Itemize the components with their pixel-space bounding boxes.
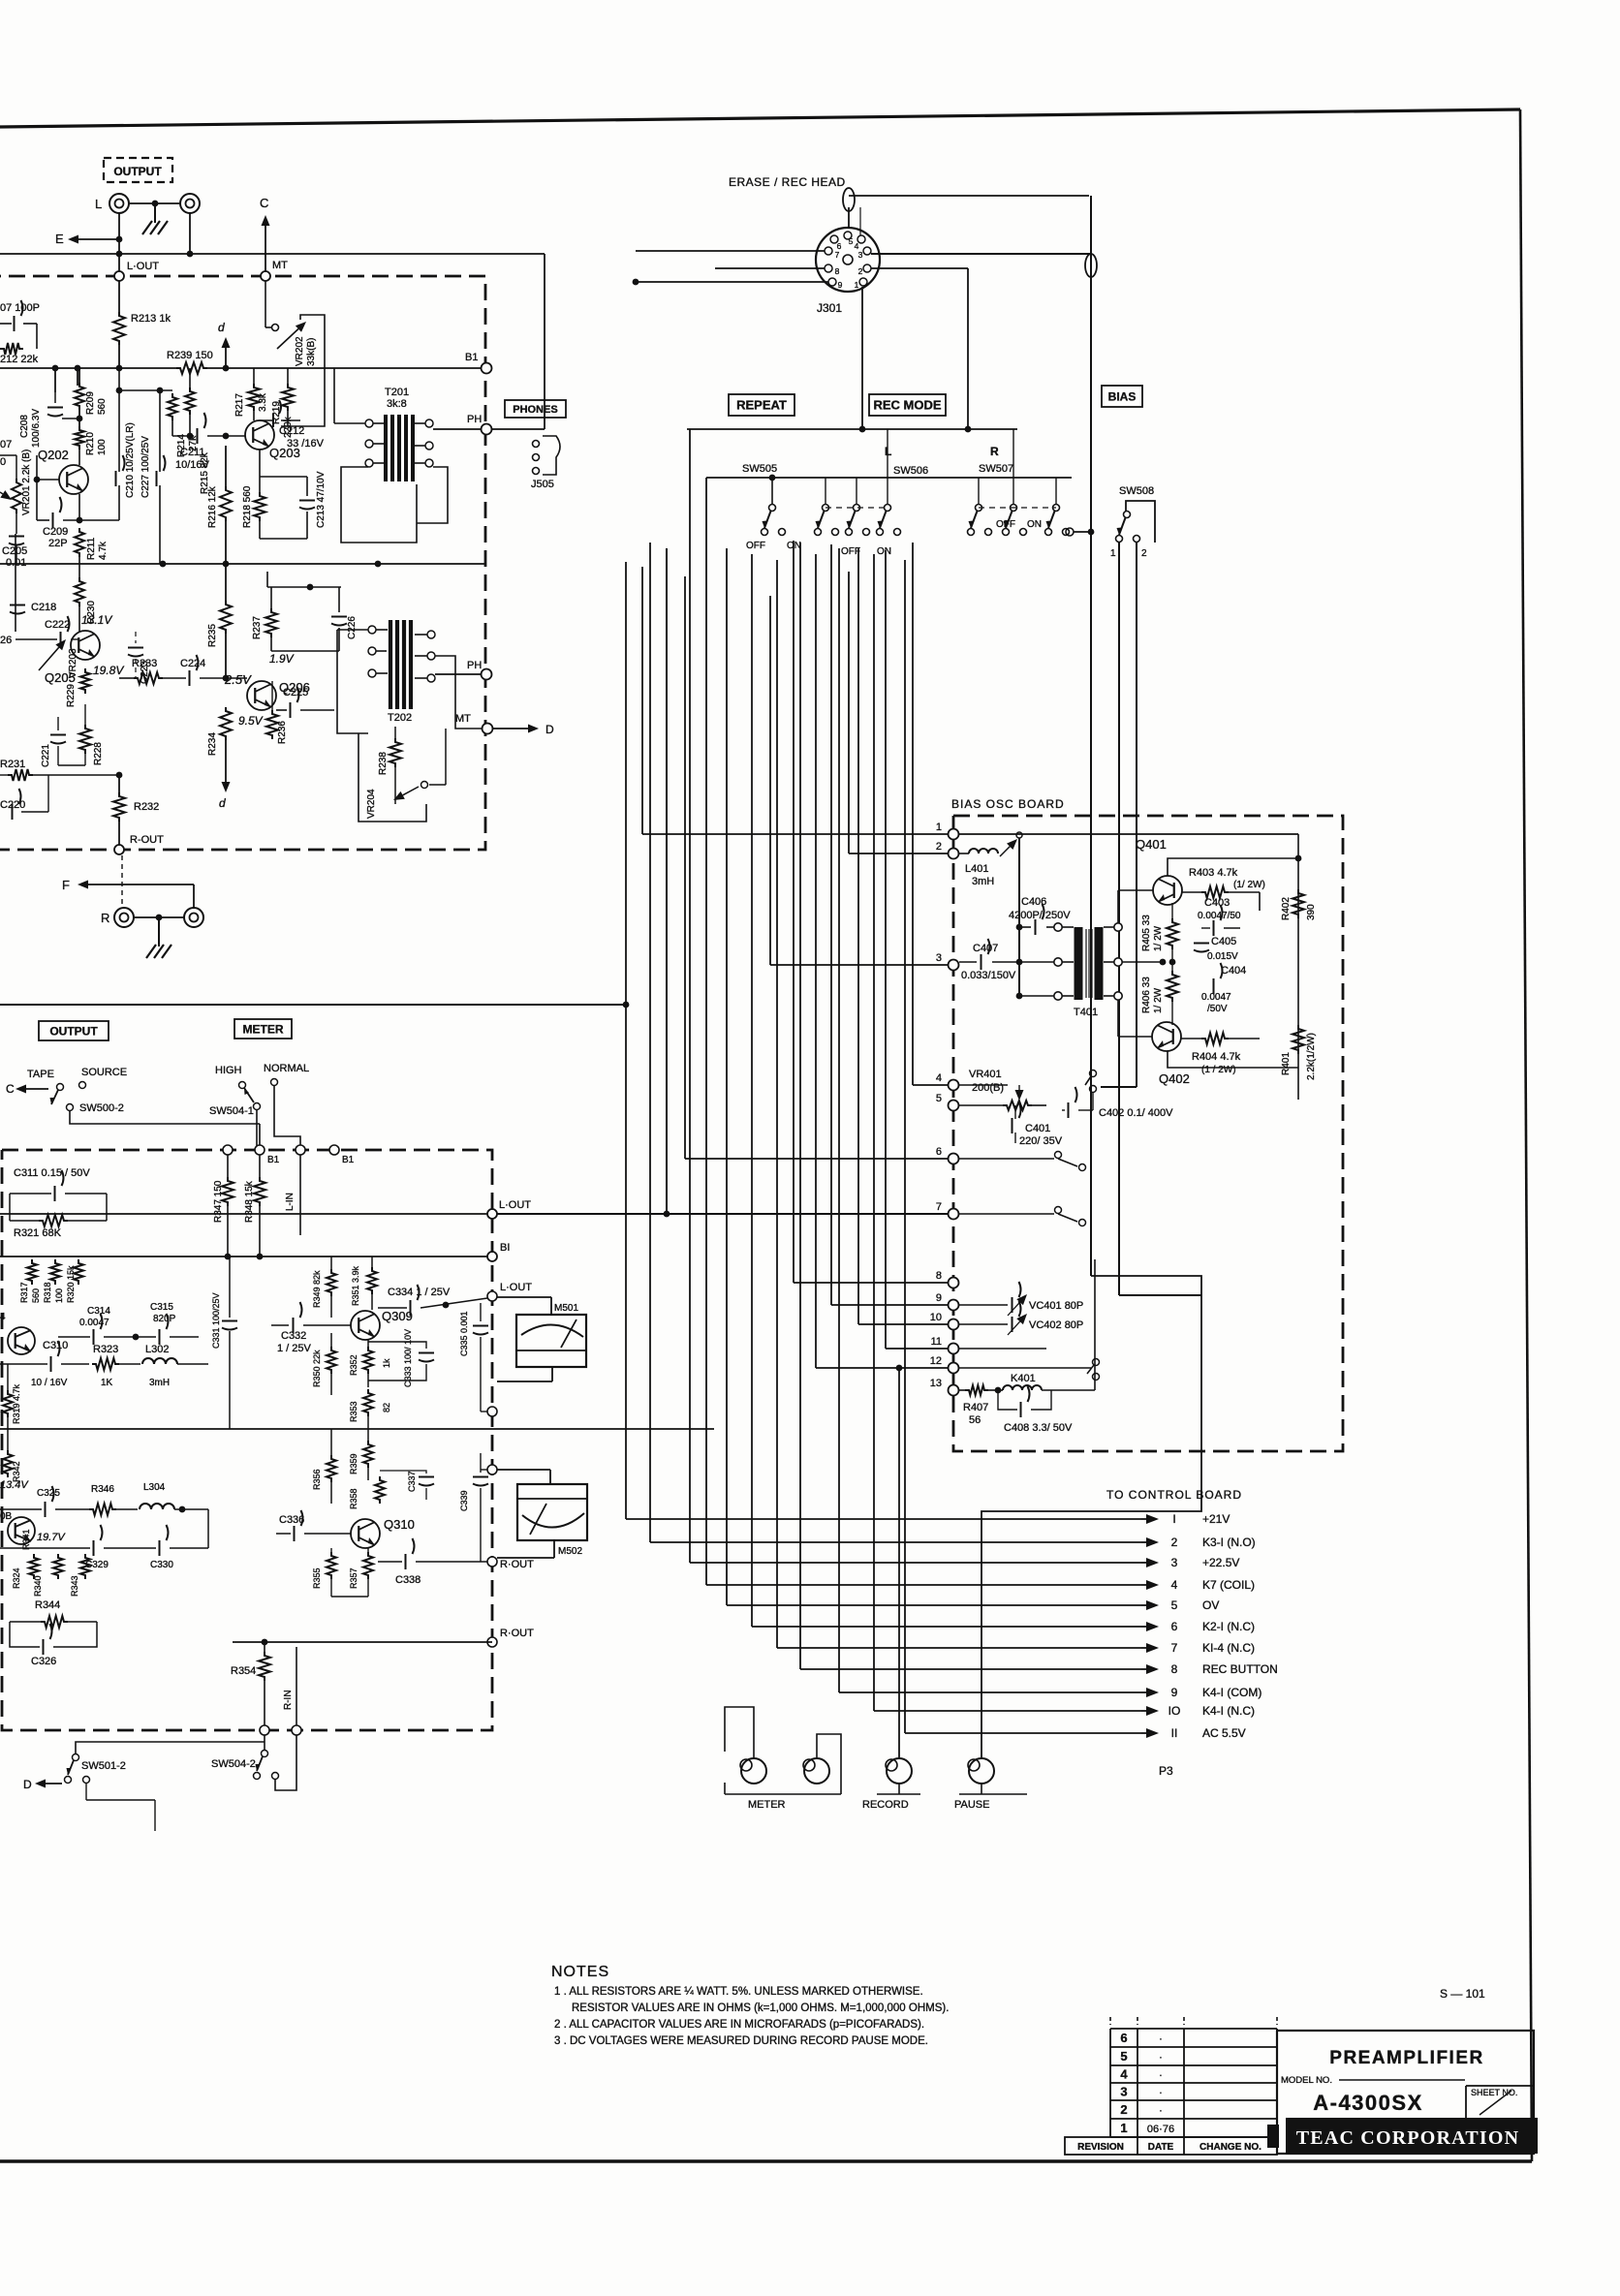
- node PH: [482, 424, 492, 435]
- svg-text:R231: R231: [0, 759, 25, 770]
- label BIAS: [1102, 386, 1142, 407]
- wire bundle to control row 10: [873, 554, 875, 1711]
- svg-text:7: 7: [835, 250, 840, 260]
- label OUTPUT (top): [104, 158, 172, 182]
- shield oval 2: [1085, 254, 1097, 277]
- svg-text:R237: R237: [252, 616, 263, 639]
- svg-text:RESISTOR VALUES ARE IN OHM: RESISTOR VALUES ARE IN OHMS (k=1,000 OHM…: [572, 2002, 949, 2014]
- svg-text:AC 5.5V: AC 5.5V: [1202, 1726, 1246, 1740]
- node D arrow right: [493, 728, 528, 729]
- svg-text:R210: R210: [85, 432, 96, 455]
- svg-text:R321 68K: R321 68K: [14, 1227, 62, 1239]
- svg-text:10: 10: [930, 1312, 942, 1323]
- svg-text:BI: BI: [500, 1242, 510, 1254]
- svg-text:R356: R356: [312, 1469, 322, 1490]
- wire J301 pin3 right: [871, 253, 1091, 255]
- svg-text:REC BUTTON: REC BUTTON: [1202, 1662, 1278, 1676]
- svg-text:13.4V: 13.4V: [0, 1479, 29, 1491]
- svg-text:VC402 80P: VC402 80P: [1029, 1319, 1083, 1331]
- svg-text:19.8V: 19.8V: [93, 664, 124, 677]
- svg-text:10/16V: 10/16V: [175, 459, 210, 471]
- svg-text:1 . ALL RESISTORS ARE ¼ W: 1 . ALL RESISTORS ARE ¼ WATT. 5%. UNLESS…: [554, 1986, 923, 1998]
- resistor R215: [189, 368, 191, 388]
- svg-text:C311 0.15 / 50V: C311 0.15 / 50V: [14, 1167, 90, 1179]
- svg-text:5: 5: [1171, 1598, 1178, 1612]
- svg-text:C315: C315: [150, 1302, 173, 1313]
- control board arrow 3: [1141, 1562, 1146, 1564]
- label REPEAT: [729, 394, 794, 416]
- svg-text:6: 6: [1171, 1620, 1178, 1633]
- bias board pin 3: [949, 960, 959, 971]
- wire bundle to bias pin: [815, 554, 817, 1368]
- svg-text:C407: C407: [973, 943, 998, 954]
- svg-text:9.5V: 9.5V: [238, 714, 264, 728]
- wire bus y443: [687, 428, 1017, 430]
- resistor R210: [75, 426, 84, 450]
- ground: [154, 203, 156, 223]
- svg-text:L304: L304: [143, 1482, 166, 1493]
- svg-text:22P: 22P: [48, 538, 68, 549]
- node d arrow up: [225, 348, 227, 368]
- sheet right border: [1520, 109, 1532, 2161]
- wire left stubs: [0, 1363, 35, 1365]
- svg-text:R353: R353: [349, 1401, 358, 1422]
- svg-text:·: ·: [1159, 2088, 1163, 2099]
- svg-text:P3: P3: [1159, 1764, 1173, 1778]
- svg-text:390: 390: [1306, 904, 1317, 920]
- svg-text:R401: R401: [1281, 1052, 1292, 1075]
- resistor R237 capacitor C226: [267, 586, 341, 588]
- svg-text:5: 5: [1120, 2049, 1127, 2063]
- svg-text:R355: R355: [312, 1567, 322, 1589]
- svg-text:OFF: OFF: [841, 546, 860, 557]
- svg-text:MT: MT: [272, 260, 288, 271]
- svg-text:M501: M501: [554, 1303, 578, 1314]
- playback board dashed outline: [0, 276, 485, 850]
- resistor R321: [39, 1215, 68, 1226]
- svg-text:9: 9: [936, 1292, 942, 1304]
- svg-text:2.2k(1/2W): 2.2k(1/2W): [1306, 1033, 1317, 1080]
- svg-text:R359: R359: [349, 1453, 358, 1474]
- svg-text:R·OUT: R·OUT: [500, 1628, 534, 1639]
- bias board pin 2: [949, 849, 959, 859]
- resistor R219: [282, 384, 294, 411]
- wire jack-R down: [189, 213, 191, 254]
- node d arrow down: [225, 765, 227, 782]
- wire rail y582: [0, 563, 485, 565]
- svg-text:1/ 2W: 1/ 2W: [1153, 987, 1164, 1013]
- svg-text:R217: R217: [234, 393, 245, 417]
- capacitor C205: [9, 537, 24, 545]
- transistor Q308 partial: [8, 1517, 35, 1544]
- svg-text:R358: R358: [349, 1488, 358, 1509]
- svg-text:TO CONTROL BOARD: TO CONTROL BOARD: [1106, 1488, 1242, 1502]
- transistor Q205: [71, 631, 100, 660]
- wire bundle to bias pin: [885, 550, 887, 1349]
- wire bundle to bias pin: [641, 567, 643, 834]
- wire bus y493: [706, 477, 1072, 479]
- svg-text:R219: R219: [271, 401, 282, 424]
- svg-text:C401: C401: [1025, 1123, 1050, 1134]
- transistor Q206: [247, 681, 276, 710]
- capacitor C208: [62, 418, 79, 419]
- svg-text:·: ·: [1159, 2070, 1163, 2082]
- svg-text:VC401 80P: VC401 80P: [1029, 1300, 1083, 1312]
- svg-text:C404: C404: [1221, 965, 1246, 977]
- control board arrow 1: [1141, 1518, 1146, 1520]
- resistor R348: [259, 1155, 261, 1177]
- svg-text:100: 100: [97, 439, 108, 455]
- wire relay link corners: [1118, 1073, 1120, 1295]
- svg-text:33k(B): 33k(B): [306, 338, 317, 366]
- svg-text:R350 22k: R350 22k: [312, 1350, 322, 1387]
- svg-text:R·OUT: R·OUT: [500, 1559, 534, 1570]
- svg-text:RECORD: RECORD: [862, 1799, 909, 1811]
- svg-text:5: 5: [849, 236, 854, 246]
- svg-text:R319 4.7k: R319 4.7k: [12, 1383, 21, 1424]
- svg-text:560: 560: [31, 1288, 41, 1303]
- svg-text:L-IN: L-IN: [285, 1193, 296, 1211]
- capacitor C402 switch: [1090, 1070, 1097, 1077]
- svg-text:L·OUT: L·OUT: [499, 1199, 531, 1211]
- wire bundle to control row 3: [689, 429, 691, 1563]
- svg-text:CHANGE NO.: CHANGE NO.: [1199, 2142, 1262, 2153]
- svg-text:0.0047/50: 0.0047/50: [1198, 911, 1241, 921]
- varicap VC402: [959, 1323, 1008, 1325]
- svg-text:ON: ON: [877, 546, 891, 557]
- wire R233 C224 line: [119, 677, 134, 679]
- jack L-left: [109, 194, 129, 213]
- resistor R212 partial: [0, 343, 23, 355]
- wire rail y1475: [0, 1428, 714, 1430]
- svg-text:REPEAT: REPEAT: [736, 398, 787, 413]
- capacitor C210: [118, 368, 120, 472]
- bias board pin 5: [949, 1101, 959, 1111]
- svg-text:1 / 25V: 1 / 25V: [277, 1343, 312, 1354]
- wire right rail x1340: [1297, 834, 1299, 1100]
- jack R-left: [114, 908, 134, 927]
- svg-text:220/ 35V: 220/ 35V: [1019, 1135, 1063, 1147]
- relay K401: [988, 1389, 1003, 1391]
- node R-IN circles: [260, 1725, 269, 1735]
- node B1: [482, 363, 492, 374]
- svg-text:C221: C221: [41, 744, 51, 767]
- svg-text:C225: C225: [283, 687, 308, 698]
- svg-text:0.033/150V: 0.033/150V: [961, 970, 1016, 981]
- svg-text:R403 4.7k: R403 4.7k: [1189, 867, 1238, 879]
- svg-text:1.9V: 1.9V: [269, 652, 295, 666]
- svg-text:L·OUT: L·OUT: [500, 1282, 532, 1293]
- svg-text:SW506: SW506: [893, 465, 928, 477]
- wire T201 to PH: [433, 428, 486, 430]
- svg-text:BIAS: BIAS: [1108, 389, 1137, 403]
- svg-text:J301: J301: [817, 301, 842, 315]
- svg-text:0B: 0B: [0, 1511, 13, 1522]
- resistor R404: [1181, 1038, 1201, 1039]
- wire right vertical x1126: [1090, 196, 1092, 1276]
- sheet no box: [1465, 2086, 1467, 2118]
- svg-text:R238: R238: [378, 752, 389, 775]
- svg-text:11: 11: [931, 1336, 942, 1348]
- svg-text:ON: ON: [1027, 519, 1042, 530]
- resistor R214: [168, 393, 177, 420]
- wire bundle to control row 11: [904, 560, 906, 1733]
- T201 frame: [341, 467, 417, 543]
- svg-text:R211: R211: [86, 537, 97, 560]
- svg-text:Q402: Q402: [1159, 1071, 1190, 1086]
- label REC MODE: [869, 394, 946, 416]
- svg-text:OFF: OFF: [746, 541, 765, 551]
- svg-text:L401: L401: [965, 863, 988, 875]
- lamp METER 1: [741, 1758, 766, 1784]
- svg-text:R216 12k: R216 12k: [207, 485, 218, 528]
- svg-text:OUTPUT: OUTPUT: [49, 1024, 98, 1038]
- svg-text:R317: R317: [19, 1282, 29, 1303]
- node E arrow: [78, 238, 119, 240]
- resistor R218 C213 box: [259, 450, 261, 492]
- resistor R216: [225, 446, 227, 486]
- svg-text:OV: OV: [1202, 1598, 1219, 1612]
- svg-text:KI-4 (N.C): KI-4 (N.C): [1202, 1641, 1255, 1655]
- svg-text:d: d: [219, 796, 226, 810]
- control board arrow 8: [1141, 1668, 1146, 1670]
- wire between R jacks: [134, 916, 184, 918]
- wire J301 pin2 right: [871, 267, 968, 269]
- svg-text:HIGH: HIGH: [215, 1065, 242, 1076]
- resistor R229: [80, 668, 90, 694]
- svg-text:MT: MT: [455, 713, 471, 725]
- lamp RECORD: [887, 1758, 912, 1784]
- svg-text:MODEL NO.: MODEL NO.: [1281, 2075, 1332, 2086]
- node BI: [487, 1252, 497, 1261]
- svg-text:C333 100/ 10V: C333 100/ 10V: [403, 1329, 413, 1387]
- svg-text:PH: PH: [467, 660, 482, 671]
- svg-text:C339: C339: [459, 1490, 469, 1511]
- svg-text:C338: C338: [395, 1574, 421, 1586]
- svg-text:DATE: DATE: [1148, 2142, 1174, 2153]
- svg-text:SW505: SW505: [742, 463, 777, 475]
- lamp wiring pause: [981, 1276, 1201, 1758]
- node F arrow: [88, 884, 194, 885]
- svg-text:560: 560: [97, 398, 108, 415]
- transformer T401: [1075, 927, 1083, 1000]
- svg-text:2: 2: [1171, 1536, 1178, 1549]
- svg-text:R213 1k: R213 1k: [131, 313, 171, 325]
- wire v57: [54, 368, 56, 392]
- svg-text:M502: M502: [558, 1546, 582, 1557]
- transistor Q203: [245, 420, 274, 450]
- resistor R217: [248, 384, 260, 411]
- bias board pin 8: [949, 1278, 959, 1288]
- svg-text:R407: R407: [963, 1402, 988, 1413]
- wire y403: [119, 389, 172, 391]
- svg-text:212 22k: 212 22k: [0, 354, 39, 365]
- wire sw501 down: [85, 1784, 87, 1800]
- control board arrow 6: [1141, 1626, 1146, 1628]
- svg-text:K7 (COIL): K7 (COIL): [1202, 1578, 1255, 1592]
- svg-text:T202: T202: [388, 712, 412, 724]
- svg-text:C213 47/10V: C213 47/10V: [316, 471, 327, 528]
- transistor Q202: [59, 465, 88, 494]
- capacitor C326: [44, 1624, 52, 1655]
- svg-text:R209: R209: [85, 391, 96, 415]
- svg-text:06·76: 06·76: [1147, 2124, 1174, 2135]
- node circles right edge: [487, 1291, 497, 1301]
- sheet top border: [0, 109, 1520, 127]
- transistor Q304 partial: [8, 1327, 35, 1354]
- transistor Q310: [351, 1519, 380, 1548]
- svg-text:R-IN: R-IN: [283, 1690, 294, 1710]
- node L-OUT lower: [487, 1209, 497, 1219]
- svg-text:2 . ALL CAPACITOR VALUES A: 2 . ALL CAPACITOR VALUES ARE IN MICROFAR…: [554, 2019, 924, 2031]
- svg-text:C330: C330: [150, 1560, 173, 1570]
- wire Q401 collector rail: [1168, 858, 1298, 876]
- capacitor C401: [1012, 1102, 1021, 1133]
- svg-text:R228: R228: [93, 742, 104, 765]
- T401 windings: [1054, 923, 1062, 931]
- wire bundle to control row 5: [726, 548, 728, 1605]
- T201 windings: [365, 419, 373, 427]
- capacitor C329 C330: [94, 1525, 103, 1556]
- sheet bottom border: [0, 2159, 1532, 2162]
- svg-text:K2-I (N.C): K2-I (N.C): [1202, 1620, 1255, 1633]
- wire separator to pin7: [0, 1004, 626, 1006]
- svg-text:10 / 16V: 10 / 16V: [31, 1378, 68, 1388]
- bias board pin 6: [949, 1154, 959, 1164]
- svg-text:T201: T201: [385, 387, 409, 398]
- svg-text:3k:8: 3k:8: [387, 398, 407, 410]
- svg-text:R236: R236: [277, 721, 288, 744]
- capacitor C338: [378, 1561, 402, 1563]
- capacitor C211: [172, 435, 194, 437]
- svg-text:8: 8: [1171, 1662, 1178, 1676]
- svg-text:R404 4.7k: R404 4.7k: [1192, 1051, 1241, 1063]
- svg-text:PREAMPLIFIER: PREAMPLIFIER: [1329, 2048, 1483, 2068]
- bias board pin 10: [949, 1319, 959, 1330]
- svg-text:Q401: Q401: [1136, 837, 1167, 852]
- resistor R239: [176, 362, 207, 374]
- resistor R236: [266, 710, 278, 739]
- wire bundle to bias pin: [769, 596, 771, 965]
- svg-text:C314: C314: [87, 1306, 110, 1317]
- svg-text:C408 3.3/ 50V: C408 3.3/ 50V: [1004, 1422, 1073, 1434]
- wire bundle to bias pin: [793, 541, 794, 1283]
- svg-text:REVISION: REVISION: [1077, 2142, 1124, 2153]
- svg-text:D: D: [545, 723, 554, 736]
- resistor R347: [227, 1155, 229, 1177]
- svg-text:D: D: [23, 1778, 32, 1791]
- svg-text:R323: R323: [93, 1344, 118, 1355]
- svg-text:1: 1: [936, 822, 942, 833]
- svg-text:R318: R318: [43, 1282, 52, 1303]
- svg-text:PHONES: PHONES: [513, 404, 557, 416]
- bias board pin 4: [949, 1080, 959, 1091]
- control board arrow 11: [1141, 1732, 1146, 1734]
- svg-text:I: I: [1172, 1512, 1175, 1526]
- svg-text:F: F: [62, 878, 70, 892]
- svg-text:C210 10/25V(LR): C210 10/25V(LR): [125, 422, 136, 498]
- svg-text:OUTPUT: OUTPUT: [113, 165, 162, 178]
- svg-text:SW504-2: SW504-2: [211, 1758, 256, 1770]
- ground R: [158, 917, 160, 946]
- wire J301 left pin8: [715, 267, 825, 269]
- wire SW508 out1: [1118, 543, 1120, 1073]
- svg-text:d: d: [218, 321, 225, 334]
- node R-OUT: [114, 845, 124, 854]
- capacitor C223: [128, 648, 143, 657]
- label OUTPUT (lower): [39, 1021, 109, 1040]
- svg-text:R232: R232: [134, 801, 159, 813]
- svg-text:8: 8: [936, 1270, 942, 1282]
- svg-text:VR401: VR401: [969, 1069, 1002, 1080]
- node MT2: [483, 724, 493, 734]
- svg-text:K4-I (COM): K4-I (COM): [1202, 1686, 1262, 1699]
- svg-text:B1: B1: [267, 1155, 280, 1165]
- svg-text:9: 9: [1171, 1686, 1178, 1699]
- lamp wiring meter: [725, 1707, 754, 1758]
- wire J301 left pin9: [636, 281, 828, 283]
- svg-text:C: C: [260, 196, 268, 210]
- wire meter M501 leads: [497, 1296, 551, 1298]
- wire R jack up: [193, 884, 195, 908]
- control board arrow 10: [1141, 1710, 1146, 1712]
- wire rail BI y1297: [0, 1256, 492, 1257]
- svg-text:METER: METER: [243, 1022, 284, 1036]
- svg-text:TAPE: TAPE: [27, 1069, 54, 1080]
- svg-text:R343: R343: [70, 1575, 79, 1597]
- svg-text:2: 2: [858, 266, 863, 276]
- jack J505: [533, 441, 540, 448]
- svg-text:5: 5: [936, 1093, 942, 1104]
- svg-text:R352: R352: [349, 1354, 358, 1376]
- revision header: [1065, 2137, 1277, 2155]
- wire bundle to bias pin: [912, 543, 914, 1085]
- svg-text:SHEET NO.: SHEET NO.: [1471, 2088, 1517, 2097]
- svg-text:1k: 1k: [382, 1358, 391, 1368]
- svg-text:PH: PH: [467, 414, 482, 425]
- node R-OUT low: [487, 1637, 497, 1647]
- resistor R407: [959, 1389, 965, 1391]
- svg-text:C: C: [6, 1082, 15, 1096]
- svg-text:0: 0: [0, 456, 6, 468]
- node C arrow: [265, 226, 266, 276]
- svg-text:R: R: [990, 445, 999, 458]
- wire bundle to control row 4: [705, 478, 707, 1585]
- svg-text:07 100P: 07 100P: [0, 302, 40, 314]
- svg-text:SW508: SW508: [1119, 485, 1154, 497]
- svg-text:0.015V: 0.015V: [1207, 951, 1238, 962]
- title box: [1277, 2031, 1534, 2154]
- bias board pin 7: [949, 1209, 959, 1220]
- svg-text:R341: R341: [21, 1529, 31, 1550]
- capacitor C227: [159, 390, 161, 472]
- svg-text:4: 4: [1171, 1578, 1178, 1592]
- wire v80: [77, 368, 78, 386]
- control board arrow 9: [1141, 1691, 1146, 1693]
- svg-text:K401: K401: [1011, 1373, 1036, 1384]
- wire head to right: [849, 195, 1089, 197]
- resistor R231: [8, 769, 33, 781]
- capacitor C405: [1194, 944, 1209, 952]
- svg-text:C403: C403: [1204, 897, 1230, 909]
- svg-text:200(B): 200(B): [972, 1082, 1004, 1094]
- svg-text:K4-I (N.C): K4-I (N.C): [1202, 1704, 1255, 1718]
- svg-text:4: 4: [936, 1072, 942, 1084]
- capacitor C221 resistor R228: [50, 735, 66, 744]
- svg-text:L·OUT: L·OUT: [127, 261, 159, 272]
- svg-text:R357: R357: [349, 1567, 358, 1589]
- svg-text:R235: R235: [207, 624, 218, 647]
